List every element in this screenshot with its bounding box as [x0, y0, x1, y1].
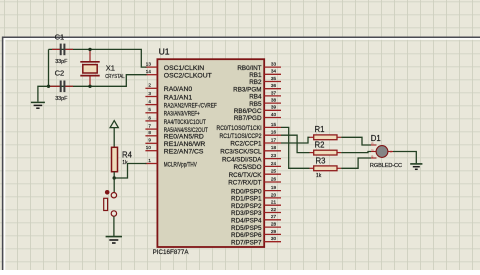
svg-text:13: 13: [146, 62, 152, 67]
capacitor C1: [52, 44, 73, 56]
label R4: [122, 150, 133, 159]
U1 right pin 30 RD7/PSP7: [231, 236, 281, 246]
svg-text:6: 6: [148, 115, 151, 120]
wire RC2 pin17 to R1: [281, 137, 310, 143]
svg-text:RA2/AN2/VREF-/CVREF: RA2/AN2/VREF-/CVREF: [164, 103, 217, 110]
svg-text:22: 22: [271, 207, 277, 212]
svg-text:3: 3: [148, 91, 151, 96]
U1 right pin 17 RC2/CCP1: [230, 137, 281, 147]
svg-text:PIC16F877A: PIC16F877A: [153, 249, 190, 256]
svg-text:RC1/T1OSI/CCP2: RC1/T1OSI/CCP2: [220, 133, 262, 140]
svg-text:36: 36: [271, 83, 277, 88]
svg-text:RB5: RB5: [249, 101, 262, 108]
U1 right pin 23 RC4/SDI/SDA: [222, 153, 281, 163]
U1 left pin 9 RE1/AN6/WR: [145, 138, 205, 149]
U1 left pin 10 RE2/AN7/CS: [145, 145, 204, 156]
svg-text:B: B: [371, 154, 373, 158]
svg-text:D1: D1: [371, 134, 381, 143]
label C1: [55, 33, 65, 42]
svg-text:RB1: RB1: [249, 72, 262, 79]
svg-text:4: 4: [148, 99, 151, 104]
resistor R2: [310, 150, 342, 155]
U1 right pin 38 RB5: [249, 98, 281, 108]
wire junction to button: [113, 178, 115, 192]
U1 left pin 7 RA5/AN4/SS/C2OUT: [145, 124, 207, 135]
svg-text:24: 24: [271, 161, 277, 166]
svg-text:RB3/PGM: RB3/PGM: [233, 86, 261, 93]
resistor R3: [310, 166, 342, 171]
U1 left pin 1 MCLR/Vpp/THV: [145, 158, 197, 169]
U1 left pin 14 OSC2/CLKOUT: [145, 69, 211, 80]
U1 left pin 8 RE0/AN5/RD: [145, 130, 204, 141]
U1 right pin 26 RC7/RX/DT: [228, 176, 281, 186]
svg-text:RD0/PSP0: RD0/PSP0: [231, 188, 262, 195]
wire ground tap from C2 junction: [38, 86, 49, 101]
wire RC0 pin15 to R3: [281, 127, 310, 168]
label D1: [371, 134, 381, 143]
U1 right pin 29 RD6/PSP6: [231, 229, 281, 239]
svg-text:MCLR/Vpp/THV: MCLR/Vpp/THV: [164, 161, 197, 168]
svg-text:17: 17: [271, 137, 277, 142]
svg-text:RE1/AN6/WR: RE1/AN6/WR: [164, 141, 206, 148]
U1 right pin 27 RD4/PSP4: [231, 214, 281, 224]
svg-text:8: 8: [148, 130, 151, 135]
svg-text:40: 40: [271, 112, 277, 117]
svg-text:RD5/PSP5: RD5/PSP5: [231, 225, 262, 232]
svg-text:RB2: RB2: [249, 79, 262, 86]
svg-text:RC6/TX/CK: RC6/TX/CK: [229, 172, 263, 179]
value 1k (R3): [316, 173, 322, 179]
U1 left pin 6 RA4/T0CKI/C1OUT: [145, 115, 205, 126]
label R3: [316, 156, 326, 165]
U1 right pin 34 RB1: [249, 69, 281, 79]
svg-text:27: 27: [271, 214, 277, 219]
U1 right pin 35 RB2: [249, 76, 281, 86]
svg-text:RA3/AN3/VREF+: RA3/AN3/VREF+: [164, 111, 200, 118]
IC U1 PIC16F877A body: [157, 59, 264, 247]
svg-text:OSC2/CLKOUT: OSC2/CLKOUT: [164, 73, 212, 80]
svg-text:RE0/AN5/RD: RE0/AN5/RD: [164, 134, 204, 141]
svg-text:1k: 1k: [316, 173, 322, 179]
wire OSC2 net to pin 14: [49, 75, 147, 87]
wire OSC1 net to pin 13: [49, 49, 147, 67]
svg-text:X1: X1: [106, 63, 115, 72]
svg-text:RD3/PSP3: RD3/PSP3: [231, 210, 262, 217]
U1 right pin 18 RC3/SCK/SCL: [220, 145, 281, 155]
resistor R1: [310, 135, 342, 140]
ground (button): [106, 237, 122, 243]
svg-text:RD4/PSP4: RD4/PSP4: [231, 218, 262, 225]
svg-text:19: 19: [271, 185, 277, 190]
svg-text:R4: R4: [122, 150, 133, 159]
U1 right pin 19 RD0/PSP0: [231, 185, 281, 195]
svg-text:29: 29: [271, 229, 277, 234]
svg-text:RGBLED-CC: RGBLED-CC: [370, 163, 402, 169]
svg-text:23: 23: [271, 153, 277, 158]
svg-text:33pF: 33pF: [55, 96, 68, 102]
svg-text:R3: R3: [316, 156, 326, 165]
junction crystal top: [88, 48, 91, 51]
svg-text:RB6/PGC: RB6/PGC: [234, 108, 262, 115]
svg-text:16: 16: [271, 130, 277, 135]
junction R4/button: [113, 176, 116, 179]
U1 right pin 33 RB0/INT: [237, 62, 281, 72]
U1 right pin 37 RB4: [249, 90, 281, 100]
U1 right pin 36 RB3/PGM: [233, 83, 281, 93]
RGB LED D1: [371, 141, 393, 158]
svg-text:18: 18: [271, 145, 277, 150]
U1 left pin 5 RA3/AN3/VREF+: [145, 107, 199, 118]
svg-text:10: 10: [146, 145, 152, 150]
U1 right pin 25 RC6/TX/CK: [229, 169, 281, 179]
svg-text:OSC1/CLKIN: OSC1/CLKIN: [164, 65, 205, 72]
capacitor C2: [50, 81, 74, 93]
label U1: [159, 47, 170, 57]
svg-text:21: 21: [271, 200, 277, 205]
junction crystal bottom: [88, 85, 91, 88]
svg-text:28: 28: [271, 222, 277, 227]
svg-text:R1: R1: [315, 125, 325, 134]
value RGBLED-CC: [370, 163, 402, 169]
wire RC1 pin16 to R2: [281, 135, 310, 152]
svg-text:RC2/CCP1: RC2/CCP1: [230, 141, 262, 148]
svg-text:RB7/PGD: RB7/PGD: [234, 115, 262, 122]
label R1: [315, 125, 325, 134]
svg-text:7: 7: [148, 124, 151, 129]
svg-text:RA0/AN0: RA0/AN0: [164, 86, 193, 93]
label PIC16F877A: [153, 249, 190, 256]
U1 right pin 40 RB7/PGD: [234, 112, 281, 122]
svg-text:C1: C1: [55, 33, 65, 42]
svg-text:33: 33: [271, 62, 277, 67]
svg-text:RD2/PSP2: RD2/PSP2: [231, 203, 262, 210]
svg-text:5: 5: [148, 107, 151, 112]
svg-text:38: 38: [271, 98, 277, 103]
svg-text:RD7/PSP7: RD7/PSP7: [231, 239, 262, 246]
U1 left pin 3 RA1/AN1: [145, 91, 192, 102]
U1 right pin 39 RB6/PGC: [234, 105, 281, 115]
svg-text:RA4/T0CKI/C1OUT: RA4/T0CKI/C1OUT: [164, 119, 206, 126]
svg-text:33pF: 33pF: [55, 59, 68, 65]
wire button to ground: [113, 216, 115, 236]
svg-text:RD6/PSP6: RD6/PSP6: [231, 232, 262, 239]
svg-text:39: 39: [271, 105, 277, 110]
wire R1 to LED R pin: [341, 137, 371, 145]
wire left vertical C1-C2: [48, 49, 50, 86]
U1 right pin 24 RC5/SDO: [234, 161, 282, 171]
label R2: [315, 141, 325, 150]
svg-text:30: 30: [271, 236, 277, 241]
resistor R4: [112, 147, 118, 171]
svg-text:RC5/SDO: RC5/SDO: [234, 164, 262, 171]
svg-text:RC3/SCK/SCL: RC3/SCK/SCL: [220, 149, 262, 156]
svg-text:RD1/PSP1: RD1/PSP1: [231, 196, 262, 203]
power terminal VCC arrow: [110, 121, 118, 148]
label X1: [106, 63, 115, 72]
value 33pF (C1): [55, 59, 68, 65]
wire R4 bottom to MCLR pin 1: [114, 164, 146, 179]
U1 right pin 15 RC0/T1OSO/T1CKI: [217, 122, 282, 132]
svg-text:RB0/INT: RB0/INT: [237, 65, 261, 72]
ground (crystal circuit): [31, 102, 45, 108]
svg-text:14: 14: [146, 69, 152, 74]
svg-text:1: 1: [148, 158, 151, 163]
svg-text:R2: R2: [315, 141, 325, 150]
svg-text:15: 15: [271, 122, 277, 127]
svg-text:RC4/SDI/SDA: RC4/SDI/SDA: [222, 156, 262, 163]
value CRYSTAL: [105, 74, 125, 80]
crystal X1: [80, 49, 99, 86]
U1 right pin 28 RD5/PSP5: [231, 222, 281, 232]
svg-text:37: 37: [271, 90, 277, 95]
svg-text:9: 9: [148, 138, 151, 143]
U1 right pin 16 RC1/T1OSI/CCP2: [220, 130, 282, 140]
wire R3 to LED B pin: [341, 158, 371, 168]
svg-text:20: 20: [271, 192, 277, 197]
svg-text:2: 2: [148, 83, 151, 88]
U1 right pin 20 RD1/PSP1: [231, 192, 281, 202]
U1 left pin 2 RA0/AN0: [145, 83, 192, 94]
svg-text:34: 34: [271, 69, 277, 74]
push button: [104, 190, 117, 216]
U1 right pin 21 RD2/PSP2: [231, 200, 281, 210]
svg-text:U1: U1: [159, 47, 170, 57]
svg-text:RB4: RB4: [249, 94, 262, 101]
svg-text:RA1/AN1: RA1/AN1: [164, 94, 193, 101]
svg-text:RE2/AN7/CS: RE2/AN7/CS: [164, 149, 204, 156]
svg-text:CRYSTAL: CRYSTAL: [105, 74, 125, 80]
svg-text:35: 35: [271, 76, 277, 81]
value 1k (R4): [122, 160, 128, 166]
wire LED cathode to ground: [393, 152, 416, 164]
svg-text:RC0/T1OSO/T1CKI: RC0/T1OSO/T1CKI: [217, 125, 262, 132]
wire R2 to LED G pin: [341, 152, 371, 153]
ground (LED): [410, 164, 422, 169]
U1 right pin 22 RD3/PSP3: [231, 207, 281, 217]
U1 left pin 13 OSC1/CLKIN: [145, 62, 204, 73]
svg-text:26: 26: [271, 176, 277, 181]
value 33pF (C2): [55, 96, 68, 102]
svg-text:RC7/RX/DT: RC7/RX/DT: [228, 180, 261, 187]
U1 left pin 4 RA2/AN2/VREF-/CVREF: [145, 99, 216, 110]
svg-text:C2: C2: [55, 69, 65, 78]
svg-text:25: 25: [271, 169, 277, 174]
label C2: [55, 69, 65, 78]
junction C2/ground tap: [47, 85, 50, 88]
